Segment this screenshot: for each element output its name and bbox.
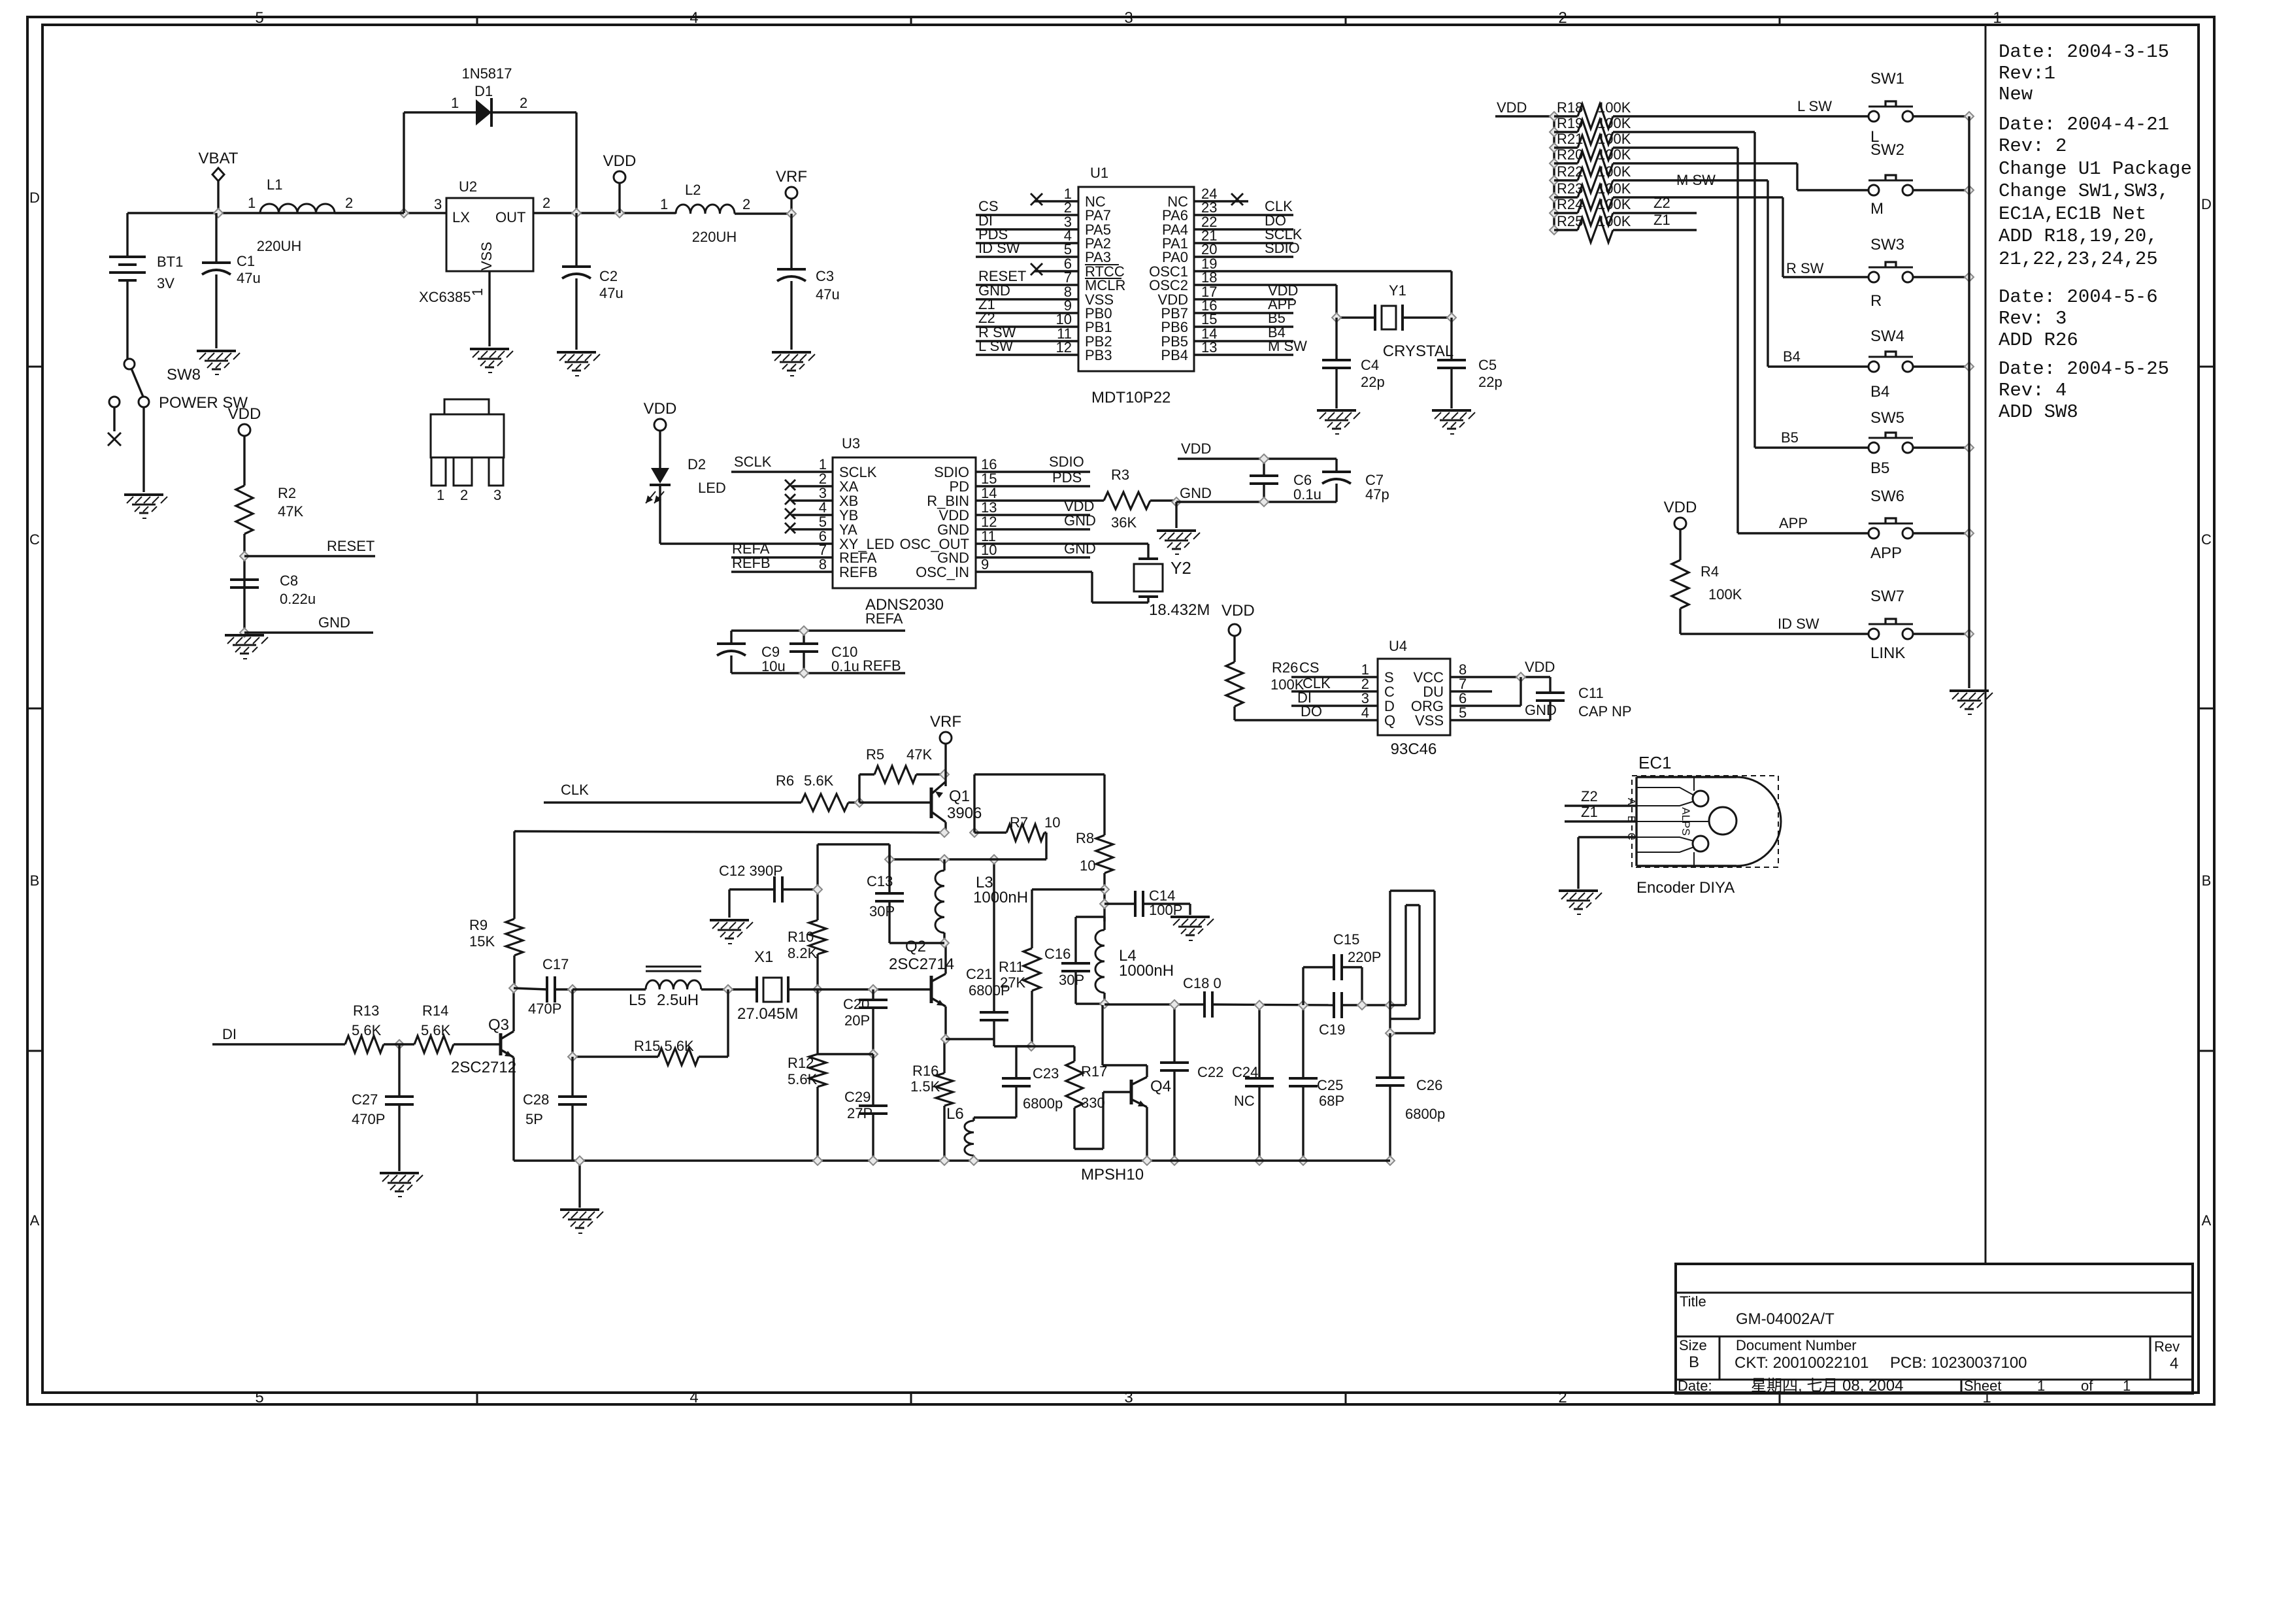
svg-text:47K: 47K xyxy=(278,503,303,520)
svg-text:C2: C2 xyxy=(599,268,618,284)
svg-text:R10: R10 xyxy=(788,929,814,945)
svg-text:VDD: VDD xyxy=(228,405,261,423)
svg-text:C15: C15 xyxy=(1333,931,1359,948)
svg-text:D: D xyxy=(2201,196,2212,212)
node C22 bottom junction xyxy=(1170,1156,1179,1165)
svg-text:1: 1 xyxy=(469,288,486,296)
svg-text:C: C xyxy=(2201,531,2212,548)
wire RF output row xyxy=(1104,1004,1390,1005)
svg-text:4: 4 xyxy=(2170,1355,2178,1372)
wire U4 CLK xyxy=(1291,675,1378,691)
U1 pin name labels xyxy=(1085,193,1188,363)
svg-text:R22: R22 xyxy=(1557,163,1583,180)
wire U1 pin 4 PDS xyxy=(976,226,1078,243)
node C10 bottom junction xyxy=(799,669,808,678)
node right bus junction SW6 xyxy=(1965,529,1974,538)
svg-text:VRF: VRF xyxy=(776,168,807,186)
svg-text:GND: GND xyxy=(318,614,350,631)
svg-text:Q2: Q2 xyxy=(905,938,926,955)
SOT-89 package drawing xyxy=(431,399,504,503)
svg-text:C22: C22 xyxy=(1197,1064,1223,1080)
switch SW3 xyxy=(1868,236,1913,310)
wire U1 OSC2 to crystal xyxy=(1194,285,1337,318)
node U4 VDD junction xyxy=(1516,672,1525,682)
node right bus junction SW1 xyxy=(1965,112,1974,121)
svg-text:C4: C4 xyxy=(1361,357,1379,373)
node antenna bottom junction xyxy=(1386,1029,1395,1038)
power flag VDD at D2 xyxy=(644,400,677,468)
antenna loop xyxy=(1390,891,1435,1033)
svg-text:36K: 36K xyxy=(1111,514,1137,531)
svg-text:1000nH: 1000nH xyxy=(1119,962,1174,980)
svg-text:Rev:1: Rev:1 xyxy=(1999,63,2055,84)
node L3 top junction xyxy=(940,855,949,864)
inductor L6 xyxy=(946,1105,974,1161)
wire U2 VSS xyxy=(488,271,490,346)
svg-text:100K: 100K xyxy=(1597,196,1631,212)
resistor R11 27K xyxy=(999,948,1040,1046)
svg-text:C1: C1 xyxy=(237,253,255,269)
svg-text:PB4: PB4 xyxy=(1161,347,1188,363)
wire R24 Z2 stub xyxy=(1613,195,1697,213)
svg-text:VDD: VDD xyxy=(603,152,637,170)
wire U1 pin 3 DI xyxy=(976,212,1078,229)
wire Q1 collector row xyxy=(514,831,944,833)
svg-text:3V: 3V xyxy=(157,275,174,291)
svg-text:C29: C29 xyxy=(844,1089,871,1105)
node R8 R11 junction xyxy=(1100,885,1109,894)
capacitor C28 5P xyxy=(523,1057,587,1161)
capacitor C8 0.22u xyxy=(230,572,316,607)
svg-text:CAP NP: CAP NP xyxy=(1578,703,1632,720)
svg-text:LINK: LINK xyxy=(1870,644,1905,662)
svg-text:R SW: R SW xyxy=(1786,260,1824,276)
svg-text:C19: C19 xyxy=(1319,1021,1345,1038)
svg-text:Change SW1,SW3,: Change SW1,SW3, xyxy=(1999,180,2169,202)
svg-text:X1: X1 xyxy=(754,948,773,966)
node Q4 emitter rail junction xyxy=(1142,1156,1152,1165)
svg-text:C27: C27 xyxy=(352,1091,378,1108)
svg-text:SW8: SW8 xyxy=(167,366,201,384)
svg-text:CKT: 20010022101: CKT: 20010022101 xyxy=(1735,1354,1869,1372)
capacitor C9 10u xyxy=(717,631,786,674)
wire D2 cathode to XY_LED xyxy=(660,486,833,544)
svg-text:27P: 27P xyxy=(847,1105,872,1121)
svg-text:1: 1 xyxy=(248,195,256,211)
capacitor C3 xyxy=(777,214,840,350)
wire U4 DU stub xyxy=(1450,690,1492,692)
svg-text:NC: NC xyxy=(1234,1093,1255,1109)
svg-text:VDD: VDD xyxy=(1664,499,1697,516)
svg-text:1N5817: 1N5817 xyxy=(461,65,512,82)
svg-text:10u: 10u xyxy=(761,658,786,674)
node C26 rail junction xyxy=(1386,1156,1395,1165)
svg-text:Date:: Date: xyxy=(1678,1378,1712,1394)
svg-text:SDIO: SDIO xyxy=(1265,240,1300,256)
resistor R8 10 xyxy=(1076,830,1113,874)
wire GND rail below C6 xyxy=(1176,501,1337,503)
svg-text:Sheet: Sheet xyxy=(1964,1378,2002,1394)
wire EC1 C to ground xyxy=(1578,837,1636,889)
svg-text:Title: Title xyxy=(1680,1293,1706,1310)
node D1 left junction xyxy=(399,208,408,218)
svg-text:APP: APP xyxy=(1870,544,1902,562)
svg-text:47u: 47u xyxy=(237,270,261,286)
node R3 GND junction xyxy=(1172,485,1212,506)
capacitor C6 0.1u xyxy=(1250,459,1321,503)
node right bus junction SW4 xyxy=(1965,362,1974,371)
svg-text:SW5: SW5 xyxy=(1870,409,1904,427)
svg-text:A: A xyxy=(1625,798,1636,805)
wire R23 to SW3 R_SW xyxy=(1613,197,1868,277)
svg-text:22p: 22p xyxy=(1361,374,1385,390)
svg-text:SW3: SW3 xyxy=(1870,236,1904,254)
microcontroller U1 MDT10P22 xyxy=(1078,165,1194,406)
svg-text:10: 10 xyxy=(1044,814,1060,831)
node L4 bottom junction xyxy=(1100,999,1109,1008)
svg-text:GND: GND xyxy=(1064,512,1096,529)
svg-text:ID SW: ID SW xyxy=(978,240,1020,256)
wire Z1 to EC1 B xyxy=(1565,804,1636,821)
svg-text:C26: C26 xyxy=(1416,1077,1442,1093)
svg-text:Q3: Q3 xyxy=(488,1016,509,1034)
svg-text:Rev: 3: Rev: 3 xyxy=(1999,308,2067,329)
resistor R17 330 xyxy=(1031,1046,1107,1149)
power flag VRF xyxy=(776,168,807,214)
svg-text:4: 4 xyxy=(689,9,698,27)
resistor R26 100K xyxy=(1226,659,1304,720)
wire RF middle row xyxy=(889,858,1046,860)
resistor R16 1.5K xyxy=(910,1039,953,1161)
svg-text:0.22u: 0.22u xyxy=(280,591,316,607)
capacitor C29 27P xyxy=(844,1054,888,1161)
svg-text:C24: C24 xyxy=(1232,1064,1258,1080)
switch SW7 xyxy=(1868,588,1913,662)
svg-text:B4: B4 xyxy=(1783,348,1801,365)
svg-text:B5: B5 xyxy=(1781,429,1799,446)
ground below R3 xyxy=(1157,502,1200,554)
svg-text:15K: 15K xyxy=(469,933,495,950)
wire SW5 to right bus xyxy=(1913,446,1969,448)
wire U1 APP xyxy=(1194,296,1297,313)
capacitor C18 0 xyxy=(1183,975,1221,1018)
svg-text:220P: 220P xyxy=(1348,949,1381,965)
svg-text:1: 1 xyxy=(2037,1378,2045,1394)
node VBAT junction xyxy=(214,208,223,218)
wire SW2 to right bus xyxy=(1913,189,1969,191)
zone letters right xyxy=(2201,196,2212,1229)
wire U3 GND pin12 xyxy=(976,512,1096,529)
node right bus junction SW5 xyxy=(1965,443,1974,452)
svg-text:SW6: SW6 xyxy=(1870,488,1904,505)
node C17 right junction xyxy=(568,985,577,994)
zone numbers bottom xyxy=(255,1389,1991,1406)
svg-text:68P: 68P xyxy=(1319,1093,1344,1109)
svg-text:C18 0: C18 0 xyxy=(1183,975,1221,991)
wire switch right bus xyxy=(1968,116,1970,688)
capacitor C17 470P xyxy=(514,956,573,1017)
wire R5 left leg xyxy=(859,774,874,803)
wire U1 pin 7 RESET xyxy=(976,268,1078,285)
svg-text:L6: L6 xyxy=(946,1105,964,1123)
crystal X1 27.045M xyxy=(737,948,931,1023)
wire U4 VCC to VDD xyxy=(1450,659,1555,677)
wire R22 to SW4 B4 xyxy=(1613,180,1868,367)
node R17 top junction xyxy=(1027,1042,1036,1051)
ground below C27 xyxy=(380,1173,423,1197)
transistor Q1 3906 xyxy=(859,782,982,833)
svg-text:L1: L1 xyxy=(267,176,282,193)
node C24 bottom junction xyxy=(1255,1156,1264,1165)
svg-text:R9: R9 xyxy=(469,917,488,933)
diode D1 1N5817 xyxy=(404,65,576,213)
svg-text:R: R xyxy=(1870,292,1882,310)
capacitor C23 6800p xyxy=(974,1046,1063,1118)
encoder EC1 xyxy=(1625,753,1781,897)
svg-text:R2: R2 xyxy=(278,485,296,501)
node Q3 collector C17 junction xyxy=(509,984,518,993)
svg-text:C16: C16 xyxy=(1044,946,1071,962)
svg-text:U3: U3 xyxy=(842,435,860,452)
border inner frame xyxy=(42,25,2199,1393)
resistor R2 47K xyxy=(236,485,303,534)
wire U3 VDD pin13 xyxy=(976,498,1094,515)
svg-text:3: 3 xyxy=(493,487,501,503)
svg-text:2: 2 xyxy=(542,195,550,211)
wire U1 pin 2 CS xyxy=(976,198,1078,215)
svg-text:Date: 2004-4-21: Date: 2004-4-21 xyxy=(1999,114,2169,135)
node R5 VRF junction xyxy=(940,770,949,779)
node VDD junction xyxy=(615,208,624,218)
ground below C1 xyxy=(197,351,240,374)
svg-text:330: 330 xyxy=(1081,1095,1105,1111)
resistor R5 47K xyxy=(866,746,944,783)
switch SW5 xyxy=(1868,409,1913,477)
power flag VDD above R26 xyxy=(1221,602,1255,662)
node antenna junction xyxy=(1386,1001,1395,1010)
wire U1 pin 9 Z1 xyxy=(976,296,1078,313)
ground below C5 xyxy=(1432,410,1475,434)
svg-text:5P: 5P xyxy=(525,1111,543,1127)
svg-text:100K: 100K xyxy=(1597,146,1631,163)
svg-text:GND: GND xyxy=(1180,485,1212,501)
wire VBAT rail xyxy=(127,212,446,214)
power flag VRF at Q1 xyxy=(930,713,961,786)
svg-text:OUT: OUT xyxy=(495,209,525,225)
wire C12 link row xyxy=(818,844,889,859)
wire D1 to OUT xyxy=(575,112,577,213)
wire U3 REFA xyxy=(731,540,833,557)
wire U4 ORG to VDD xyxy=(1450,677,1521,706)
svg-text:220UH: 220UH xyxy=(257,238,301,254)
node bus junction R25 xyxy=(1550,225,1559,235)
wire U1 M SW xyxy=(1194,338,1307,355)
svg-text:Z1: Z1 xyxy=(1653,212,1670,228)
node C10 top junction xyxy=(799,626,808,635)
svg-text:220UH: 220UH xyxy=(692,229,737,245)
wire U1 pin 11 R SW xyxy=(976,324,1078,341)
resistor R13 5.6K xyxy=(345,1003,384,1053)
capacitor C24 NC xyxy=(1232,1005,1274,1161)
wire SW7 to right bus xyxy=(1913,633,1969,635)
svg-text:Q4: Q4 xyxy=(1150,1078,1171,1095)
resistor R6 5.6K xyxy=(776,772,859,811)
no-connect X U3 pin 3 XB xyxy=(785,494,833,505)
svg-text:R23: R23 xyxy=(1557,180,1583,197)
node C29 rail junction xyxy=(869,1156,878,1165)
transistor Q4 MPSH10 xyxy=(1081,1005,1171,1184)
no-connect X U1 pin 24 xyxy=(1194,193,1248,205)
svg-text:GND: GND xyxy=(1525,702,1557,718)
node Q2 collector junction xyxy=(940,938,949,948)
svg-text:1: 1 xyxy=(437,487,444,503)
node C6 bottom junction xyxy=(1259,497,1269,506)
wire CLK line xyxy=(544,782,801,803)
node bus junction R19 xyxy=(1550,127,1559,137)
svg-text:VRF: VRF xyxy=(930,713,961,731)
U4 pin name labels xyxy=(1384,669,1444,729)
optical sensor U3 ADNS2030 xyxy=(833,435,976,614)
svg-text:XC6385: XC6385 xyxy=(419,289,471,305)
svg-text:5: 5 xyxy=(1459,704,1467,721)
wire SW8 to ground xyxy=(142,407,144,492)
svg-text:VSS: VSS xyxy=(1415,712,1444,729)
svg-text:BT1: BT1 xyxy=(157,254,183,270)
svg-text:R19: R19 xyxy=(1557,115,1583,131)
node VRF junction xyxy=(787,209,796,218)
svg-text:3: 3 xyxy=(1124,1389,1133,1406)
svg-text:R14: R14 xyxy=(422,1003,448,1019)
wire R25 Z1 stub xyxy=(1613,212,1697,230)
svg-text:100K: 100K xyxy=(1597,131,1631,147)
U3 pin numbers xyxy=(819,456,997,572)
svg-text:RESET: RESET xyxy=(327,538,374,554)
svg-text:星期四, 七月 08, 2004: 星期四, 七月 08, 2004 xyxy=(1751,1377,1903,1395)
svg-text:U4: U4 xyxy=(1389,638,1407,654)
svg-text:21,22,23,24,25: 21,22,23,24,25 xyxy=(1999,248,2158,270)
svg-text:1.5K: 1.5K xyxy=(910,1078,940,1095)
ground below SW8 xyxy=(124,495,167,518)
wire C16 top leg xyxy=(1076,917,1104,963)
node C21 top junction xyxy=(989,855,999,864)
svg-text:EC1A,EC1B Net: EC1A,EC1B Net xyxy=(1999,203,2146,225)
svg-text:C28: C28 xyxy=(523,1091,549,1108)
svg-text:SW2: SW2 xyxy=(1870,141,1904,159)
svg-text:1: 1 xyxy=(2123,1378,2131,1394)
svg-text:R5: R5 xyxy=(866,746,884,763)
svg-text:LX: LX xyxy=(452,209,470,225)
node GND junction xyxy=(240,628,249,637)
capacitor C15 220P loop xyxy=(1303,931,1381,1005)
svg-text:R18: R18 xyxy=(1557,99,1583,116)
revision notes separator line xyxy=(1985,25,1987,1264)
svg-text:22p: 22p xyxy=(1478,374,1503,390)
svg-text:6800p: 6800p xyxy=(1405,1106,1445,1122)
eeprom U4 93C46 xyxy=(1378,638,1450,758)
capacitor C22 xyxy=(1160,1004,1223,1161)
wire U1 pin 8 GND xyxy=(976,282,1078,299)
ground below C4 xyxy=(1317,410,1360,434)
svg-text:3: 3 xyxy=(1124,9,1133,27)
svg-text:CLK: CLK xyxy=(561,782,589,798)
switch SW1 xyxy=(1868,70,1913,146)
zone letters left xyxy=(29,190,40,1229)
svg-text:B: B xyxy=(2202,872,2212,889)
node C25 bottom junction xyxy=(1299,1156,1308,1165)
wire REFB rail xyxy=(731,657,905,674)
svg-text:SDIO: SDIO xyxy=(1049,454,1084,470)
wire U3 GND pin10 xyxy=(976,540,1096,557)
node C25 top junction xyxy=(1299,1001,1308,1010)
wire U1 pin 5 ID SW xyxy=(976,240,1078,257)
transistor Q2 2SC2714 xyxy=(889,938,954,1039)
resistor R15 5.6K xyxy=(573,989,728,1065)
svg-text:SCLK: SCLK xyxy=(734,454,772,470)
no-connect X U3 pin 4 YB xyxy=(785,508,833,519)
wire R20 to SW2 M_SW xyxy=(1613,163,1868,190)
revision history text xyxy=(1999,41,2192,423)
svg-text:GM-04002A/T: GM-04002A/T xyxy=(1736,1310,1835,1328)
node bus junction R21 xyxy=(1550,143,1559,152)
svg-text:Date: 2004-3-15: Date: 2004-3-15 xyxy=(1999,41,2169,63)
capacitor C10 0.1u xyxy=(789,631,859,674)
svg-text:3906: 3906 xyxy=(947,804,982,822)
svg-text:Q: Q xyxy=(1384,712,1395,729)
capacitor C2 xyxy=(562,213,623,350)
svg-text:R26: R26 xyxy=(1272,659,1298,676)
node Y1 right junction xyxy=(1447,313,1456,322)
capacitor C11 CAP NP xyxy=(1536,677,1632,720)
svg-text:R11: R11 xyxy=(999,959,1024,975)
svg-text:B: B xyxy=(1689,1353,1699,1371)
svg-text:100K: 100K xyxy=(1597,115,1631,131)
resistor R4 100K xyxy=(1672,560,1742,634)
svg-text:0.1u: 0.1u xyxy=(831,658,859,674)
svg-text:R24: R24 xyxy=(1557,196,1583,212)
svg-text:R20: R20 xyxy=(1557,146,1583,163)
svg-text:Rev: 2: Rev: 2 xyxy=(1999,135,2067,157)
capacitor C13 30P xyxy=(867,844,944,943)
wire Z2 to EC1 A xyxy=(1565,788,1636,806)
wire U1 B5 xyxy=(1194,310,1293,327)
crystal Y1 xyxy=(1337,282,1453,360)
node bus junction R18 xyxy=(1550,112,1559,121)
svg-text:M: M xyxy=(1870,200,1884,218)
resistor R21 100K xyxy=(1554,131,1631,160)
wire SW3 to right bus xyxy=(1913,276,1969,278)
wire U3 REFB xyxy=(731,555,833,572)
node right bus junction SW3 xyxy=(1965,273,1974,282)
ground below EC1 xyxy=(1559,891,1602,914)
svg-text:18.432M: 18.432M xyxy=(1149,601,1210,619)
switch SW8 POWER SW xyxy=(109,359,248,431)
svg-text:R8: R8 xyxy=(1076,830,1094,846)
title block xyxy=(1676,1264,2193,1395)
wire U3 OSC_IN to Y2 xyxy=(976,572,1148,603)
svg-text:C25: C25 xyxy=(1317,1077,1343,1093)
svg-text:MPSH10: MPSH10 xyxy=(1081,1166,1144,1184)
svg-text:M SW: M SW xyxy=(1268,338,1307,354)
wire RESET stub xyxy=(244,538,375,556)
svg-text:1: 1 xyxy=(660,196,668,212)
svg-text:C5: C5 xyxy=(1478,357,1497,373)
node RESET junction xyxy=(240,552,249,561)
capacitor C5 22p xyxy=(1437,318,1503,408)
node right bus junction SW2 xyxy=(1965,186,1974,195)
svg-text:2: 2 xyxy=(1558,1389,1567,1406)
svg-text:R4: R4 xyxy=(1701,563,1719,580)
wire DI line xyxy=(212,1026,345,1044)
